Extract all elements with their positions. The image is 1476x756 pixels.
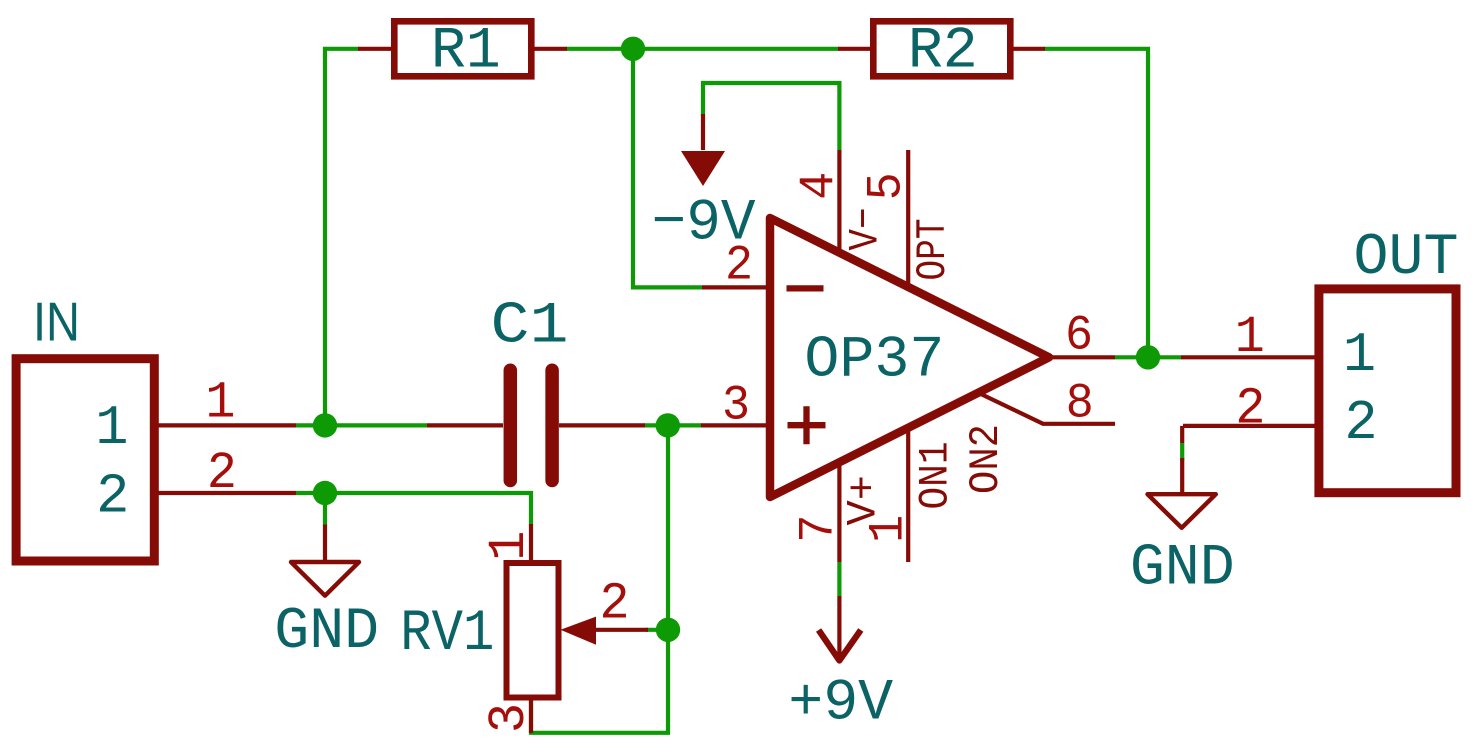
- svg-text:R1: R1: [431, 18, 501, 85]
- svg-text:1: 1: [481, 531, 539, 561]
- svg-text:OUT: OUT: [1354, 224, 1459, 291]
- potentiometer RV1: [400, 524, 648, 733]
- power symbol -9V: [652, 114, 756, 257]
- junction at R1/R2: [621, 37, 645, 61]
- pin 2 of IN: [158, 491, 296, 495]
- minus sign of inverting input: [787, 285, 824, 291]
- resistor R1: [358, 18, 567, 85]
- pin 2 wiper of RV1: [561, 617, 597, 645]
- junction at IN pin 2: [313, 481, 337, 505]
- svg-text:2: 2: [1235, 381, 1265, 439]
- svg-text:1: 1: [205, 374, 235, 432]
- power symbol +9V: [788, 596, 893, 737]
- svg-text:6: 6: [1065, 308, 1093, 364]
- ground symbol at IN: [274, 525, 379, 666]
- connector OUT: [1181, 224, 1458, 493]
- capacitor C1: [427, 293, 645, 481]
- wire: IN pin 2 to RV1 pin 1: [296, 493, 531, 525]
- pin 2 of OUT: [1183, 424, 1318, 428]
- svg-text:1: 1: [1235, 309, 1265, 367]
- svg-text:3: 3: [722, 377, 750, 433]
- junction at op-amp pin 3: [656, 413, 680, 437]
- wire: R1 right pin to junction to R2 left pin: [566, 47, 839, 51]
- svg-text:−9V: −9V: [652, 190, 756, 257]
- resistor R2: [838, 18, 1045, 85]
- svg-text:2: 2: [96, 465, 129, 528]
- wire: R2 right pin to corner down to op-amp output junction: [1044, 49, 1148, 358]
- svg-text:7: 7: [791, 515, 847, 543]
- svg-text:R2: R2: [908, 18, 978, 85]
- pin 3 of RV1: [529, 698, 533, 733]
- svg-text:4: 4: [791, 172, 847, 200]
- op-amp pin 8 (ON2): [978, 393, 1115, 424]
- op-amp pin 3 (non-inverting input): [701, 423, 772, 427]
- wire: junction at pin 3 down to RV1 wiper junction and pin 3 of RV1: [531, 425, 668, 732]
- junction at RV1 wiper: [656, 618, 680, 642]
- wire: op-amp pin 7 to +9V: [837, 562, 841, 596]
- plus sign of non-inverting input: [788, 422, 826, 428]
- svg-text:3: 3: [481, 703, 539, 733]
- svg-text:GND: GND: [274, 598, 379, 665]
- wire: IN pin 1 to C1 left pin: [296, 423, 427, 427]
- svg-text:IN: IN: [33, 291, 80, 353]
- wire: OUT pin 2 down to GND: [1180, 426, 1184, 443]
- svg-text:2: 2: [207, 445, 237, 503]
- op-amp pin 1 (ON1): [906, 428, 910, 562]
- svg-text:ON1: ON1: [912, 442, 960, 510]
- junction at op-amp output: [1136, 345, 1160, 369]
- junction at IN pin 1: [313, 413, 337, 437]
- wire: net from R1 left pin down to IN pin 1 junction: [325, 49, 359, 426]
- op-amp pin 7 (V+): [837, 462, 841, 562]
- op-amp pin 6 (output): [1049, 355, 1115, 359]
- svg-text:OPT: OPT: [909, 219, 957, 281]
- op-amp U1 OP37 triangle body: [770, 218, 1049, 497]
- svg-text:OP37: OP37: [804, 326, 944, 393]
- connector IN: [16, 291, 296, 562]
- op-amp pin 5 (OPT): [906, 150, 910, 288]
- svg-text:V−: V−: [842, 208, 890, 251]
- wire: C1 right pin to op-amp pin 3: [644, 423, 702, 427]
- svg-text:1: 1: [861, 515, 917, 543]
- svg-text:2: 2: [1344, 392, 1377, 455]
- svg-text:GND: GND: [1130, 535, 1235, 602]
- svg-text:ON2: ON2: [962, 424, 1010, 494]
- wire: op-amp pin 6 to OUT pin 1: [1115, 355, 1181, 359]
- op-amp pin 4 (V-): [837, 150, 841, 250]
- wire: IN pin 2 junction down to GND: [323, 493, 327, 526]
- svg-text:2: 2: [600, 575, 630, 633]
- op-amp pin 2 (inverting input): [702, 285, 772, 289]
- wire: -9V symbol to op-amp pin 4 (V-): [703, 83, 839, 150]
- pin 1 of IN: [158, 423, 296, 427]
- svg-text:1: 1: [95, 397, 128, 460]
- svg-text:5: 5: [858, 172, 914, 200]
- svg-text:8: 8: [1066, 375, 1094, 431]
- pin 1 of OUT: [1181, 355, 1318, 359]
- wire: junction at top down to op-amp pin 2: [633, 49, 702, 288]
- pin 1 of RV1: [529, 524, 533, 560]
- svg-text:RV1: RV1: [400, 600, 494, 667]
- ground symbol at OUT: [1130, 458, 1235, 602]
- svg-text:C1: C1: [491, 293, 569, 360]
- svg-text:1: 1: [1343, 324, 1376, 387]
- svg-text:+9V: +9V: [788, 670, 893, 737]
- wire: RV1 wiper to junction: [646, 628, 668, 632]
